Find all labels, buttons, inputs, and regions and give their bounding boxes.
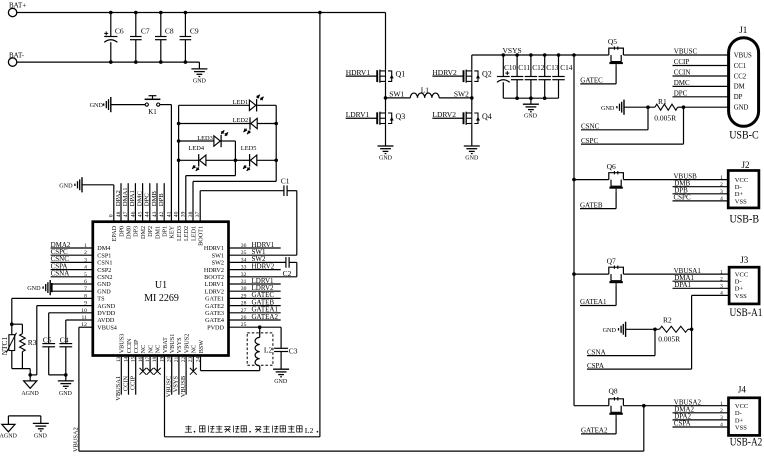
- net label HDRV1 at Q1: [346, 68, 378, 77]
- svg-text:VCC: VCC: [735, 177, 748, 184]
- capacitor C8: [155, 13, 174, 63]
- wire BOOT1 to C1: [200, 191, 284, 222]
- net label DMA2: [673, 406, 729, 414]
- pin numbers J3: [720, 269, 723, 296]
- svg-text:C3: C3: [289, 346, 298, 355]
- net label CSNC pin 3: [51, 255, 93, 263]
- wire rail to Q8: [574, 405, 609, 407]
- net label CSPA pin 4: [51, 262, 93, 270]
- net label CCIN: [673, 69, 729, 77]
- wire pin38 net: [193, 181, 276, 221]
- pin numbers right: [241, 243, 247, 328]
- net label GATEC: [580, 67, 616, 85]
- svg-text:34: 34: [241, 257, 247, 263]
- wire LED1 cathode: [257, 104, 277, 106]
- transistor Q2: [464, 70, 492, 83]
- net label GATEA2: [581, 418, 616, 435]
- svg-text:KEY: KEY: [169, 225, 176, 238]
- LED LED4: [188, 145, 206, 171]
- capacitor C13: [539, 55, 559, 98]
- wire L1 to SW2: [439, 97, 472, 99]
- svg-text:4: 4: [720, 422, 723, 428]
- svg-text:NC: NC: [140, 345, 147, 354]
- svg-text:VBUS3: VBUS3: [119, 334, 126, 354]
- svg-text:44: 44: [145, 211, 151, 217]
- net label CSNA pin 5: [51, 270, 93, 278]
- wire VBUS4 pin 12 to Q8 output: [79, 327, 644, 451]
- pin numbers top: [109, 211, 201, 217]
- svg-text:Q3: Q3: [396, 112, 406, 121]
- svg-text:DMA1: DMA1: [122, 187, 129, 206]
- svg-text:NC: NC: [155, 345, 162, 354]
- ground GND at K1: [90, 97, 111, 112]
- svg-text:GATE3: GATE3: [205, 310, 224, 317]
- svg-text:NC: NC: [147, 345, 154, 354]
- svg-text:C12: C12: [532, 63, 545, 72]
- wire AGND-GND tie: [8, 416, 40, 425]
- net label DPA1: [673, 281, 730, 289]
- wire LED row3: [179, 140, 214, 142]
- wire AGND pin 9: [28, 306, 92, 377]
- net label DMA1: [673, 274, 730, 282]
- connector J2 USB-B: [728, 160, 759, 226]
- svg-text:DM1: DM1: [154, 226, 161, 239]
- svg-text:CSN1: CSN1: [97, 260, 112, 267]
- svg-text:35: 35: [241, 250, 247, 256]
- pin numbers J2: [720, 175, 723, 202]
- svg-text:USB-A2: USB-A2: [730, 437, 763, 449]
- wire LED5 left: [235, 159, 249, 161]
- svg-text:VBUSC: VBUSC: [166, 376, 173, 397]
- capacitor C9: [180, 13, 199, 63]
- ground AGND bottom-left: [0, 424, 18, 439]
- svg-text:NTC1: NTC1: [0, 337, 9, 356]
- wire PVDD to C3: [280, 327, 282, 348]
- capacitor C5: [42, 313, 55, 375]
- svg-text:GND: GND: [274, 379, 288, 385]
- svg-text:CSNA: CSNA: [587, 348, 606, 356]
- net label HDRV2 pin 33: [229, 262, 281, 270]
- svg-text:LDRV2: LDRV2: [205, 288, 224, 295]
- svg-text:C5: C5: [43, 335, 52, 344]
- svg-text:GND: GND: [734, 105, 749, 112]
- pin numbers bottom: [116, 356, 201, 362]
- ground GND at BAT- rail: [191, 62, 207, 84]
- svg-text:AGND: AGND: [21, 391, 39, 397]
- svg-text:DMC: DMC: [136, 191, 143, 207]
- net label VBUSA2 at J4: [674, 398, 702, 406]
- svg-text:GND: GND: [379, 156, 393, 162]
- resistor R1: [654, 97, 677, 122]
- connector J1 USB-C: [729, 25, 759, 142]
- svg-text:39: 39: [181, 211, 187, 217]
- capacitor C4: [59, 320, 72, 375]
- svg-text:R1: R1: [658, 97, 667, 106]
- svg-text:C11: C11: [518, 63, 530, 72]
- svg-text:3: 3: [720, 284, 723, 290]
- svg-text:DP1: DP1: [162, 226, 169, 237]
- svg-text:CSPA: CSPA: [674, 420, 691, 428]
- svg-text:MI 2269: MI 2269: [144, 293, 179, 304]
- svg-text:37: 37: [195, 211, 201, 217]
- svg-text:41: 41: [166, 211, 172, 217]
- ground GND at Q3: [378, 146, 394, 162]
- svg-text:EPAD: EPAD: [111, 225, 118, 241]
- inductor L1: [410, 86, 439, 98]
- wire C1 to SW1 pin: [229, 191, 297, 256]
- net label VBUSB pin 22: [180, 356, 187, 398]
- svg-text:GND: GND: [603, 327, 617, 334]
- wire LED2 right: [257, 123, 276, 125]
- svg-text:VBUSB: VBUSB: [180, 376, 187, 397]
- svg-text:D+: D+: [735, 286, 744, 293]
- wire SW2 to Q4 drain: [471, 98, 473, 112]
- svg-text:L2: L2: [305, 426, 314, 435]
- ground GND at VSYS caps: [523, 98, 539, 119]
- svg-text:Q8: Q8: [609, 386, 618, 395]
- svg-text:AGND: AGND: [97, 303, 115, 310]
- svg-text:LED2: LED2: [233, 117, 249, 124]
- svg-text:SW2: SW2: [454, 89, 469, 98]
- capacitor C1: [281, 177, 290, 197]
- net label LDRV2 at Q4: [432, 110, 463, 119]
- transistor Q4: [464, 112, 492, 125]
- capacitor C14: [552, 55, 573, 98]
- svg-text:C14: C14: [560, 63, 573, 72]
- svg-text:VBUS4: VBUS4: [97, 324, 117, 331]
- connector J3 USB-A1: [729, 255, 763, 319]
- ground GND at R2: [603, 322, 626, 337]
- svg-text:VBAT: VBAT: [162, 337, 169, 353]
- svg-text:D-: D-: [735, 410, 742, 417]
- svg-text:DPA2: DPA2: [115, 190, 122, 206]
- pin names left inside: [97, 245, 117, 331]
- capacitor C7: [130, 13, 150, 63]
- svg-text:TS: TS: [97, 296, 105, 303]
- svg-text:L1: L1: [421, 86, 430, 95]
- net label LDRV1 pin 31: [229, 277, 281, 285]
- svg-text:1: 1: [720, 175, 723, 181]
- svg-text:CC1: CC1: [734, 63, 746, 70]
- wire SW2 pin to C2: [229, 261, 286, 263]
- net label HDRV2 at Q2: [432, 68, 463, 77]
- svg-text:4: 4: [720, 291, 723, 297]
- svg-text:DM4: DM4: [97, 245, 110, 252]
- svg-text:DPA1: DPA1: [674, 281, 691, 289]
- svg-text:SW1: SW1: [389, 89, 404, 98]
- svg-text:LED5: LED5: [241, 145, 257, 152]
- svg-text:D-: D-: [735, 184, 742, 191]
- ground GND at C3: [273, 369, 289, 385]
- svg-text:GND: GND: [193, 78, 207, 84]
- svg-text:USB-B: USB-B: [730, 213, 760, 225]
- capacitor C3: [274, 346, 298, 355]
- wire Q6 to J2: [623, 179, 728, 181]
- svg-text:GND: GND: [90, 102, 104, 109]
- svg-text:1: 1: [720, 401, 723, 407]
- svg-text:SW2: SW2: [212, 260, 224, 267]
- svg-text:0: 0: [109, 214, 115, 217]
- net label DMA2 pin 1: [51, 241, 93, 249]
- wire VSYS rail: [472, 54, 609, 56]
- svg-text:DPC: DPC: [144, 193, 151, 207]
- wire LED row1: [179, 104, 250, 106]
- svg-text:BSW: BSW: [198, 340, 205, 354]
- ground GND at C4: [58, 381, 74, 397]
- svg-text:HDRV2: HDRV2: [204, 267, 224, 274]
- ground GND at Q4: [464, 146, 480, 162]
- net label DMB: [673, 179, 729, 187]
- svg-text:CSN2: CSN2: [97, 274, 112, 281]
- net label CCIP pin 15: [130, 356, 137, 395]
- net label CCIN pin 14: [122, 356, 129, 395]
- svg-text:R2: R2: [663, 316, 672, 325]
- svg-text:VSYS: VSYS: [503, 46, 522, 55]
- net label VSYS: [503, 46, 522, 55]
- net label CSPA at J4: [673, 420, 729, 428]
- svg-text:VCC: VCC: [735, 272, 748, 279]
- svg-text:J4: J4: [738, 385, 747, 395]
- svg-text:HDRV2: HDRV2: [252, 262, 275, 270]
- svg-text:GND: GND: [59, 391, 73, 397]
- svg-text:GATE2: GATE2: [205, 303, 224, 310]
- svg-text:LED2: LED2: [183, 226, 190, 241]
- svg-text:LED4: LED4: [188, 145, 204, 152]
- svg-text:NC: NC: [191, 345, 198, 354]
- svg-text:PVDD: PVDD: [207, 324, 224, 331]
- svg-text:GND: GND: [524, 114, 538, 120]
- svg-text:CSPA: CSPA: [587, 362, 604, 370]
- wire rail to Q6: [574, 179, 609, 181]
- node SW2: [454, 89, 474, 99]
- svg-text:VCC: VCC: [735, 403, 748, 410]
- svg-text:32: 32: [241, 272, 247, 278]
- svg-text:CCIP: CCIP: [133, 339, 140, 353]
- svg-text:DPB: DPB: [158, 193, 165, 207]
- svg-text:Q7: Q7: [607, 257, 616, 266]
- svg-text:L2: L2: [264, 345, 273, 354]
- svg-text:BOOT2: BOOT2: [204, 274, 224, 281]
- capacitor C12: [525, 55, 545, 98]
- svg-text:BOOT1: BOOT1: [198, 226, 205, 246]
- wire SW1 to L1: [386, 97, 411, 99]
- capacitor C11: [511, 55, 531, 98]
- svg-text:VBUSA1: VBUSA1: [115, 376, 122, 401]
- svg-text:D-: D-: [735, 279, 742, 286]
- no-connect pin 16: [140, 356, 147, 375]
- wire LED rail left: [178, 105, 180, 221]
- wire Q3 source to GND: [385, 125, 387, 146]
- svg-text:BAT-: BAT-: [9, 51, 25, 59]
- connector BAT+ terminal: [8, 2, 26, 17]
- capacitor C2: [283, 257, 292, 278]
- svg-text:46: 46: [130, 211, 136, 217]
- LED LED3: [197, 130, 228, 147]
- wire BAT+ rail: [17, 12, 386, 14]
- LED LED1: [233, 95, 264, 112]
- junction dots BAT+ rail: [109, 11, 322, 15]
- svg-text:VBUS: VBUS: [734, 52, 752, 59]
- LED LED2: [233, 117, 258, 134]
- svg-text:GND: GND: [27, 285, 41, 292]
- svg-text:GATEA1: GATEA1: [580, 298, 607, 306]
- node SW1: [384, 89, 405, 99]
- svg-text:CCIP: CCIP: [130, 375, 137, 390]
- no-connect pin 23: [190, 356, 197, 375]
- node TS top: [10, 322, 22, 326]
- svg-text:VSS: VSS: [735, 293, 747, 300]
- net labels top pins: [115, 187, 165, 206]
- svg-text:0.005R: 0.005R: [654, 113, 676, 122]
- wire R1 to J1 GND: [684, 106, 729, 108]
- svg-text:J1: J1: [739, 25, 747, 35]
- net label HDRV1 pin 36: [229, 241, 281, 249]
- wire GND to R2: [626, 328, 660, 330]
- svg-text:CSP1: CSP1: [97, 252, 111, 259]
- wire C3 to GND: [280, 352, 282, 370]
- svg-text:GATEA2: GATEA2: [581, 427, 608, 435]
- wires top pin stubs 48-42: [121, 183, 164, 222]
- svg-text:0.005R: 0.005R: [658, 335, 680, 344]
- junction dots VSYS cap gnd rail: [515, 96, 546, 100]
- svg-text:2: 2: [720, 276, 723, 282]
- svg-text:Q5: Q5: [608, 37, 617, 46]
- svg-text:GND: GND: [97, 288, 111, 295]
- svg-text:C4: C4: [60, 335, 69, 344]
- no-connect pin 18: [154, 356, 161, 375]
- wire GND pins 6-7: [52, 283, 93, 292]
- junction dots BAT- rail: [109, 60, 187, 64]
- svg-text:VSYS: VSYS: [176, 337, 183, 353]
- no-connect pin 17: [147, 356, 154, 375]
- net label GATEA1 pin 27: [229, 306, 281, 314]
- svg-text:J3: J3: [740, 255, 749, 265]
- transistor Q8: [609, 386, 624, 417]
- net label SW1 pin 35: [252, 248, 267, 256]
- svg-text:CSPC: CSPC: [581, 137, 598, 145]
- net label CSNC: [581, 107, 648, 130]
- pin names top inside: [111, 225, 204, 245]
- svg-text:VBUSC: VBUSC: [674, 48, 698, 56]
- net label DPC: [673, 90, 729, 98]
- wire Q8 to J4: [623, 404, 728, 408]
- wire LED3 cathode: [221, 141, 235, 160]
- svg-text:CSNC: CSNC: [581, 123, 600, 131]
- wire LED5 right: [257, 159, 276, 161]
- text chinese note: [185, 426, 318, 435]
- svg-text:K1: K1: [148, 108, 157, 116]
- svg-text:VBUSA2: VBUSA2: [73, 427, 80, 452]
- svg-text:VBUS1: VBUS1: [169, 334, 176, 354]
- wire AVDD pin 11: [66, 319, 93, 321]
- svg-text:GATEA2: GATEA2: [252, 313, 279, 321]
- wire BAT+ to Q1 drain: [385, 13, 387, 70]
- net label LDRV2 pin 30: [229, 284, 281, 292]
- svg-text:USB-A1: USB-A1: [730, 307, 763, 319]
- wire TS pin 8: [12, 298, 93, 324]
- svg-text:C6: C6: [115, 26, 124, 35]
- svg-text:CC2: CC2: [734, 73, 747, 80]
- svg-text:DVDD: DVDD: [97, 310, 115, 317]
- svg-text:DP: DP: [734, 94, 743, 101]
- svg-text:DMC: DMC: [674, 79, 690, 87]
- svg-text:SW1: SW1: [212, 252, 224, 259]
- svg-text:GATE1: GATE1: [205, 296, 224, 303]
- svg-text:42: 42: [159, 211, 165, 217]
- net label VSYS pin 21: [173, 356, 180, 395]
- node R2 right: [690, 328, 694, 332]
- net label SW2 pin 34: [252, 255, 267, 263]
- net label CSPC at J2: [673, 194, 729, 202]
- svg-text:40: 40: [174, 211, 180, 217]
- svg-text:CCIN: CCIN: [126, 338, 133, 353]
- svg-text:AVDD: AVDD: [97, 317, 115, 324]
- node R1 right: [682, 105, 686, 109]
- wire Q7 to J3: [623, 273, 729, 275]
- wire LED row4: [179, 159, 199, 161]
- connector J4 USB-A2: [729, 385, 763, 449]
- wire LED cathode rail: [275, 105, 277, 181]
- wire Q4 source to GND: [471, 125, 473, 146]
- net label CSPC pin 2: [51, 248, 93, 256]
- svg-text:38: 38: [188, 211, 194, 217]
- net label GATEB: [580, 192, 616, 210]
- svg-text:C13: C13: [546, 63, 559, 72]
- wire GND to R1: [624, 106, 655, 108]
- wire Q2 source to SW2: [471, 83, 473, 98]
- wire EPAD: [82, 185, 114, 222]
- svg-text:GND: GND: [97, 281, 111, 288]
- svg-text:GND: GND: [34, 433, 48, 439]
- resistor R2: [658, 316, 688, 344]
- ground GND bottom-left: [33, 423, 49, 439]
- wire Q5 to VBUS: [623, 54, 728, 56]
- svg-text:LED3: LED3: [176, 226, 183, 241]
- svg-text:VBUS2: VBUS2: [183, 334, 190, 354]
- wire VBAT pin 19 loop: [165, 13, 320, 437]
- svg-text:2: 2: [720, 182, 723, 188]
- junction dots VSYS rail: [502, 53, 576, 57]
- wire VSYS cap bottom rail: [503, 97, 558, 99]
- wire C5-C4 gnd rail: [49, 373, 68, 381]
- connector BAT- terminal: [8, 51, 24, 66]
- wire R2 right: [688, 328, 692, 330]
- wire Q2 drain to VSYS: [471, 55, 473, 70]
- net label DPB: [673, 187, 729, 195]
- svg-text:Q1: Q1: [396, 70, 406, 79]
- wire C2 to BOOT2 pin: [229, 262, 297, 276]
- svg-text:DM: DM: [734, 84, 745, 91]
- svg-text:LED1: LED1: [233, 99, 249, 106]
- svg-text:D+: D+: [735, 417, 744, 424]
- svg-text:GND: GND: [601, 105, 615, 112]
- switch K1: [145, 96, 161, 117]
- net label GATEA1: [580, 286, 616, 306]
- wire SW1 to Q3 drain: [385, 98, 387, 112]
- wire DVDD pin 10: [49, 312, 93, 314]
- ground GND pins 6-7: [27, 280, 50, 295]
- net label GATEA2 pin 26: [229, 313, 281, 321]
- svg-text:HDRV1: HDRV1: [204, 245, 224, 252]
- wire pin39 net: [186, 160, 236, 221]
- svg-text:43: 43: [152, 211, 158, 217]
- transistor Q1: [377, 70, 405, 83]
- svg-text:DP3: DP3: [133, 226, 140, 237]
- net label VBUSC pin 20: [166, 356, 173, 398]
- net label DMC: [673, 79, 729, 87]
- svg-text:GATEB: GATEB: [580, 201, 603, 209]
- capacitor C6: [104, 13, 124, 63]
